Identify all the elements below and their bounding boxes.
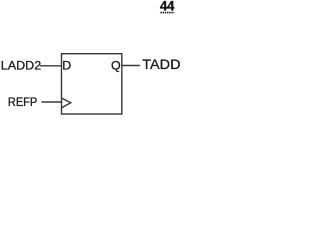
wire LADD2 to pin D [40,65,62,67]
svg-text:TADD: TADD [142,57,180,72]
svg-text:REFP: REFP [8,95,37,109]
svg-text:Q: Q [111,58,121,72]
sheet number 44 [160,0,175,14]
D flip-flop U1 body [62,54,122,114]
net label TADD [142,57,180,72]
net label REFP [8,95,37,109]
clock input triangle [62,98,71,107]
wire REFP to clock input [42,101,62,103]
svg-text:D: D [62,59,71,73]
pin label Q [111,58,121,72]
pin label D [62,59,71,73]
svg-text:LADD2: LADD2 [1,58,41,72]
net label LADD2 [1,58,41,72]
svg-text:44: 44 [160,0,175,14]
wire pin Q to TADD [122,65,140,67]
dashed underline under sheet number [160,12,174,14]
